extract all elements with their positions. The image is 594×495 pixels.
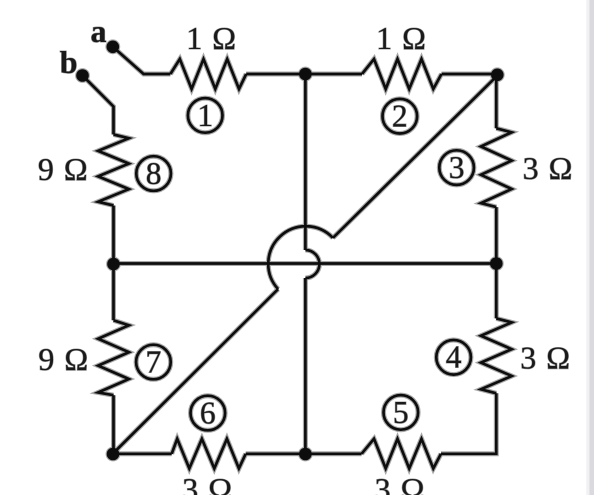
resistor R8 — [98, 135, 129, 206]
label circle 7 — [136, 345, 171, 380]
resistor R5 — [362, 439, 441, 469]
node middle right — [490, 257, 503, 270]
svg-text:3 Ω: 3 Ω — [182, 471, 233, 495]
svg-text:7: 7 — [146, 344, 162, 379]
svg-text:b: b — [60, 44, 78, 80]
wire diagonal lower — [113, 289, 279, 454]
wire left R7 to bottom node — [112, 395, 115, 454]
label circle 8 — [136, 156, 171, 191]
node dot terminal b — [76, 69, 89, 82]
svg-text:1: 1 — [197, 98, 213, 133]
wire middle vertical upper — [304, 74, 307, 250]
resistor R1 — [170, 59, 246, 89]
wire diagonal upper — [333, 75, 498, 238]
svg-text:2: 2 — [392, 99, 408, 134]
label circle 2 — [383, 99, 418, 134]
svg-text:8: 8 — [146, 156, 162, 191]
svg-text:3: 3 — [449, 150, 465, 185]
wire diagonal hop arc over center — [268, 226, 333, 289]
svg-text:4: 4 — [446, 340, 462, 375]
label circle 4 — [436, 340, 471, 375]
svg-text:9 Ω: 9 Ω — [38, 151, 89, 187]
label circle 6 — [191, 396, 226, 431]
wire right node to R3 — [495, 74, 498, 128]
wire middle horizontal — [114, 262, 497, 265]
resistor R6 — [172, 439, 246, 469]
node bottom middle — [299, 448, 312, 461]
label circle 1 — [188, 98, 223, 133]
svg-text:3 Ω: 3 Ω — [375, 471, 426, 495]
terminal b lead — [83, 76, 114, 135]
wire middle vertical lower — [304, 278, 307, 454]
wire right R3 to mid node — [495, 207, 498, 318]
scrollbar track light edge — [586, 0, 589, 495]
soft-edge underlay (light halo duplicating all wires, resistors, circles, dots) — [83, 47, 512, 469]
wire bottom between R6 and R5 — [246, 452, 362, 455]
resistor R2 — [362, 59, 442, 89]
svg-text:1 Ω: 1 Ω — [376, 20, 427, 56]
svg-text:5: 5 — [393, 395, 409, 430]
wire right R4 to bottom corner — [441, 393, 496, 454]
svg-text:3 Ω: 3 Ω — [523, 150, 574, 186]
label circle 5 — [384, 395, 419, 430]
scrollbar track — [590, 0, 594, 495]
wire top between R1 and R2 — [246, 73, 362, 76]
resistor R3 — [481, 128, 512, 207]
wire left R8 to mid node — [112, 206, 115, 321]
svg-text:3 Ω: 3 Ω — [520, 340, 571, 376]
wire bottom left of R6 — [113, 452, 172, 455]
svg-text:1 Ω: 1 Ω — [186, 20, 237, 56]
node middle left — [107, 258, 120, 271]
svg-text:9 Ω: 9 Ω — [38, 341, 89, 377]
node top middle — [299, 68, 312, 81]
node top right — [491, 69, 504, 82]
node dot terminal a — [107, 41, 120, 54]
svg-text:6: 6 — [200, 395, 216, 430]
label circle 3 — [439, 150, 474, 185]
svg-text:a: a — [91, 13, 107, 49]
resistor R7 — [98, 320, 129, 395]
wire top right of R2 — [442, 73, 498, 76]
resistor R4 — [481, 318, 512, 393]
terminal a lead — [113, 47, 171, 74]
wire hop of vertical over horizontal — [305, 250, 319, 278]
node bottom left — [107, 448, 120, 461]
